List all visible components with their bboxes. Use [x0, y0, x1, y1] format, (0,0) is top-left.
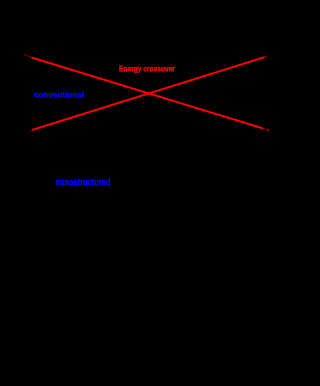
- descending red line (upper-left to lower-right), faint tapered tip at left: [24, 54, 268, 130]
- svg-text:conventional: conventional: [34, 89, 84, 99]
- svg-text:nanostructured: nanostructured: [56, 178, 111, 189]
- svg-text:Energy crossover: Energy crossover: [119, 64, 175, 73]
- arrow tick at lower-right end of descending line: [268, 129, 269, 132]
- ascending red line (lower-left to upper-right), faint tapered tips: [30, 56, 267, 131]
